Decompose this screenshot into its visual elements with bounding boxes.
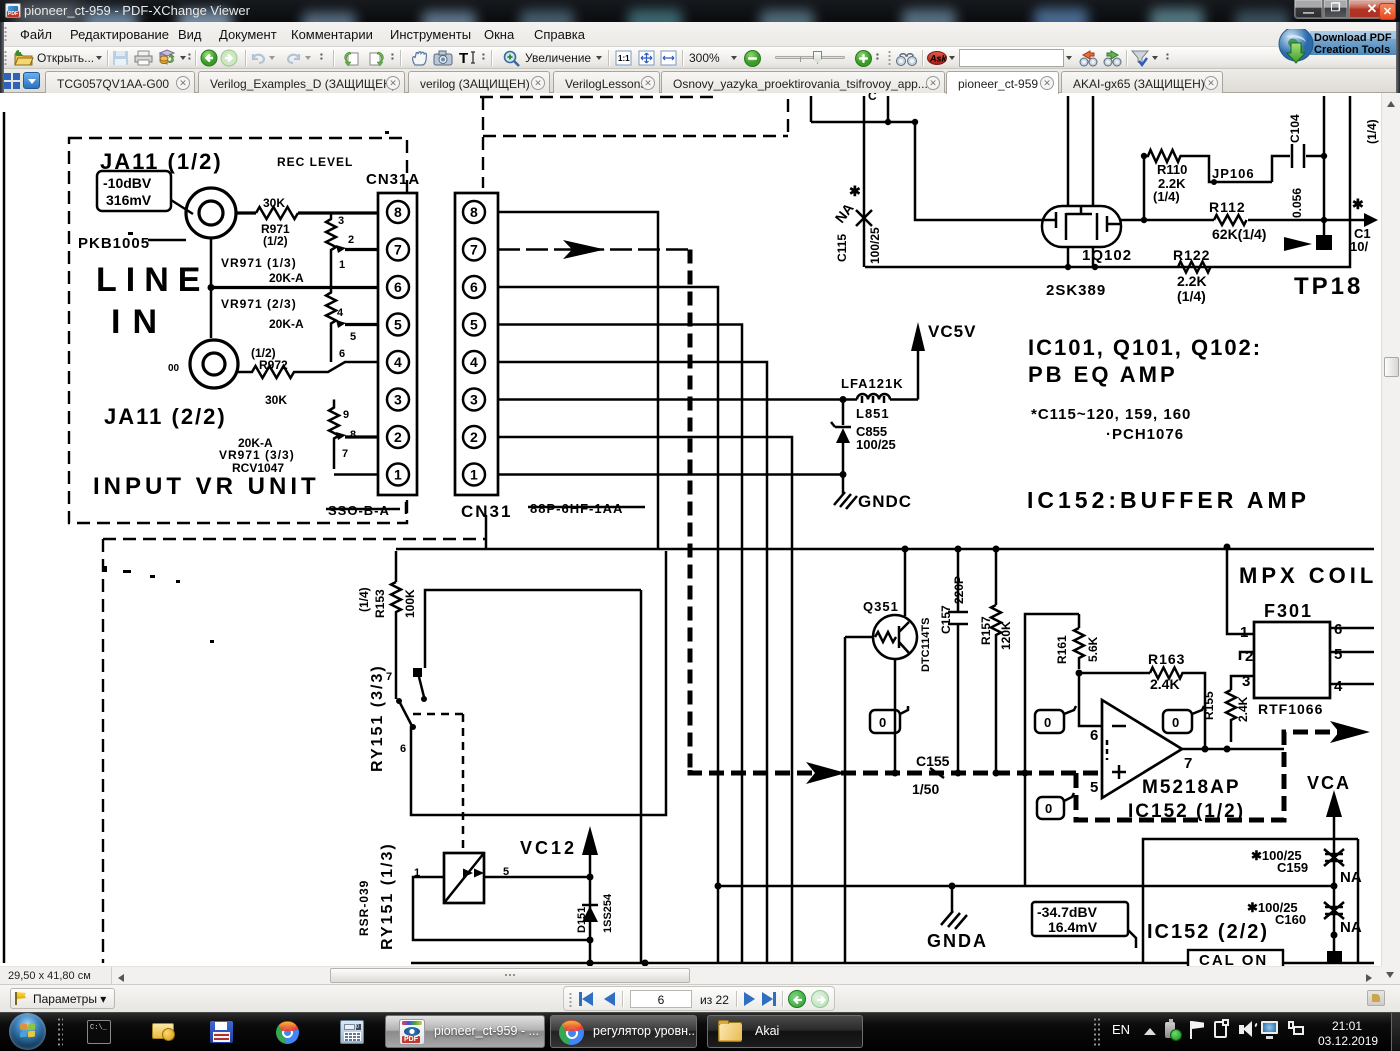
svg-text:30K: 30K <box>265 393 287 407</box>
connector CN31A <box>378 193 417 495</box>
svg-text:LFA121K: LFA121K <box>841 376 904 391</box>
capacitor C115 (NA, crossed) <box>832 183 882 264</box>
svg-text:IC101, Q101, Q102:: IC101, Q101, Q102: <box>1028 335 1262 360</box>
print <box>134 50 153 66</box>
svg-text:20K-A: 20K-A <box>269 317 304 331</box>
svg-text:7: 7 <box>394 242 402 258</box>
svg-text:88P-6HF-1AA: 88P-6HF-1AA <box>530 501 623 516</box>
tray icons <box>1165 1022 1175 1038</box>
wire to pin6 <box>211 286 378 289</box>
svg-text:00: 00 <box>168 363 180 374</box>
svg-text:1: 1 <box>339 259 345 271</box>
svg-text:0: 0 <box>1044 715 1051 730</box>
connector jack JA11 lower (RCA) <box>168 340 238 388</box>
svg-text:2SK389: 2SK389 <box>1046 282 1106 299</box>
plus circle <box>855 50 872 67</box>
value box -34.7dBV <box>1032 902 1136 948</box>
wire CN31 pin2 run <box>498 437 792 963</box>
svg-text:(1/4): (1/4) <box>1177 288 1206 304</box>
svg-text:C115: C115 <box>835 234 849 262</box>
svg-text:0: 0 <box>879 715 886 730</box>
svg-text:*C115~120, 159, 160: *C115~120, 159, 160 <box>1031 406 1191 423</box>
wire to gate line <box>915 122 1042 220</box>
wire CN31 pin1 run <box>498 473 843 476</box>
svg-text:4: 4 <box>394 354 402 370</box>
connector CN31 <box>455 193 498 495</box>
svg-text:3: 3 <box>1242 673 1250 690</box>
svg-text:8: 8 <box>350 429 356 441</box>
svg-text:PB EQ AMP: PB EQ AMP <box>1028 362 1178 387</box>
resistor R157 120K <box>979 549 1013 773</box>
svg-text:CN31A: CN31A <box>366 171 420 188</box>
svg-text:C: C <box>868 93 877 103</box>
svg-text:R112: R112 <box>1209 199 1246 215</box>
svg-text:Creation Tools: Creation Tools <box>1314 44 1390 56</box>
svg-text:-10dBV: -10dBV <box>103 175 152 191</box>
wire CN31 pin6 run <box>498 287 718 963</box>
svg-text:VR971 (1/3): VR971 (1/3) <box>221 256 297 270</box>
label 88P-6HF-1AA (struck) <box>528 501 645 516</box>
svg-text:2: 2 <box>348 234 354 246</box>
svg-text:C157: C157 <box>939 605 953 634</box>
svg-text:7: 7 <box>386 671 392 683</box>
Ask <box>927 51 947 65</box>
svg-text:R155: R155 <box>1202 691 1216 720</box>
select text <box>458 49 478 66</box>
svg-text:GNDA: GNDA <box>927 931 988 951</box>
svg-text:100/25: 100/25 <box>868 227 882 264</box>
svg-text:✱: ✱ <box>849 183 861 199</box>
hand <box>409 49 429 67</box>
node pin1/C855 <box>840 471 847 478</box>
svg-text:VR971 (2/3): VR971 (2/3) <box>221 297 297 311</box>
relay RY151 (1/3) <box>357 842 509 950</box>
op-amp IC152 (1/2) M5218AP <box>1090 700 1192 798</box>
svg-text:8: 8 <box>394 204 402 220</box>
svg-text:F301: F301 <box>1264 601 1313 621</box>
svg-text:6: 6 <box>1334 621 1342 638</box>
svg-text:D151: D151 <box>576 907 588 933</box>
svg-text:1: 1 <box>1240 624 1248 641</box>
capacitor C855 (zener) <box>831 400 896 475</box>
svg-text:3: 3 <box>338 215 344 227</box>
svg-text:9: 9 <box>343 409 349 421</box>
svg-text:C104: C104 <box>1288 114 1302 143</box>
svg-text:(1/4): (1/4) <box>1365 119 1379 144</box>
wire CN31 pin3 run to coil <box>498 398 843 401</box>
potentiometer VR971 (1/3) <box>326 213 378 288</box>
camera <box>433 50 453 66</box>
svg-text:6: 6 <box>1090 727 1098 744</box>
svg-text:L851: L851 <box>856 406 890 421</box>
svg-text:5: 5 <box>1334 646 1342 663</box>
resistor R972 30K <box>238 346 378 407</box>
IC F301 RTF1066 (MPX coil) <box>1227 549 1377 717</box>
svg-text:0: 0 <box>1172 715 1179 730</box>
resistor R153 100K <box>357 551 417 699</box>
svg-text:JP106: JP106 <box>1212 166 1255 181</box>
svg-text:✱: ✱ <box>1352 196 1364 212</box>
connector jack JA11 upper (RCA) <box>186 188 236 238</box>
diode D151 1SS254 <box>576 877 614 963</box>
svg-text:Ask: Ask <box>929 54 947 64</box>
svg-text:R157: R157 <box>979 616 993 645</box>
svg-text:CAL ON: CAL ON <box>1199 952 1268 966</box>
rotate pages <box>342 49 362 67</box>
resistor R155 2.4K <box>1202 676 1254 742</box>
svg-text:6: 6 <box>470 279 478 295</box>
svg-text:5.6K: 5.6K <box>1086 636 1100 662</box>
svg-text:Download PDF: Download PDF <box>1314 32 1392 44</box>
svg-text:IC152:BUFFER AMP: IC152:BUFFER AMP <box>1027 487 1310 513</box>
svg-text:VC5V: VC5V <box>928 322 976 341</box>
svg-text:DTC114TS: DTC114TS <box>920 618 932 672</box>
minus circle <box>744 50 761 67</box>
terminal square <box>1327 951 1342 964</box>
svg-text:1/50: 1/50 <box>912 781 939 797</box>
node junction <box>208 284 215 291</box>
svg-text:NA: NA <box>1340 919 1362 936</box>
svg-text:REC LEVEL: REC LEVEL <box>277 155 353 169</box>
svg-text:7: 7 <box>470 242 478 258</box>
label SSO-B-A (struck) <box>326 502 406 518</box>
slider <box>775 56 845 59</box>
svg-text:PKB1005: PKB1005 <box>78 235 150 252</box>
svg-text:(1/4): (1/4) <box>357 587 371 612</box>
box IC152(2/2) region <box>1143 839 1358 963</box>
svg-text:220P: 220P <box>952 576 966 604</box>
save (disabled) <box>112 50 129 66</box>
svg-text:R122: R122 <box>1173 247 1210 263</box>
task buttons <box>385 1015 545 1048</box>
svg-text:16.4mV: 16.4mV <box>1048 919 1098 935</box>
wire R110 feedback vertical <box>1143 156 1146 220</box>
wire CN31 pin5 run <box>498 325 742 964</box>
svg-text:20K-A: 20K-A <box>269 271 304 285</box>
wire bus vertical (pin7) <box>688 250 693 774</box>
svg-text:IN: IN <box>111 303 169 341</box>
svg-text:SSO-B-A: SSO-B-A <box>328 503 390 518</box>
svg-text:VCA: VCA <box>1307 773 1351 793</box>
wire jack1 down to jack2 <box>210 238 213 338</box>
wire relay pins <box>413 877 590 940</box>
wire gate2 line B <box>1121 219 1366 222</box>
svg-text:100/25: 100/25 <box>856 437 896 452</box>
wire CN31 pin7 thick bus with arrow <box>498 248 690 251</box>
zoom <box>502 49 522 67</box>
svg-text:RSR-039: RSR-039 <box>357 880 371 936</box>
svg-text:NA: NA <box>832 200 857 226</box>
svg-text:3: 3 <box>394 392 402 408</box>
svg-text:6: 6 <box>339 348 345 360</box>
open folder <box>13 49 34 67</box>
svg-text:1:1: 1:1 <box>618 54 630 63</box>
transistor Q102 (2SK389 dual FET) <box>1042 96 1132 299</box>
capacitor C157 220P <box>939 549 968 773</box>
quick launch icons <box>87 1020 111 1044</box>
svg-text:1: 1 <box>394 467 402 483</box>
svg-text:INPUT VR UNIT: INPUT VR UNIT <box>93 473 320 500</box>
wire main rail y549 <box>396 548 1374 551</box>
svg-text:2.4K: 2.4K <box>1236 696 1250 722</box>
resistor R110 2.2K <box>1144 150 1272 204</box>
node pin3/C855 <box>840 396 847 403</box>
potentiometer VR971 (2/3) <box>326 288 378 363</box>
filter funnel <box>1130 49 1150 68</box>
binoculars <box>895 51 919 66</box>
svg-text:2.2K: 2.2K <box>1177 273 1207 289</box>
svg-text:RY151 (3/3): RY151 (3/3) <box>369 664 386 772</box>
linkage dashed <box>413 713 463 716</box>
svg-text:2.4K: 2.4K <box>1150 676 1180 692</box>
svg-text:4: 4 <box>1334 678 1343 695</box>
switch RY151 (3/3) <box>369 664 427 772</box>
svg-text:316mV: 316mV <box>106 192 152 208</box>
svg-text:2: 2 <box>470 429 478 445</box>
inductor L851 LFA121K <box>841 376 918 421</box>
svg-text:6: 6 <box>394 279 402 295</box>
svg-text:TP18: TP18 <box>1294 273 1363 300</box>
svg-text:C155: C155 <box>916 753 950 769</box>
svg-text:0.056: 0.056 <box>1290 188 1304 218</box>
svg-text:62K(1/4): 62K(1/4) <box>1212 226 1266 242</box>
svg-text:4: 4 <box>470 354 478 370</box>
svg-text:M5218AP: M5218AP <box>1142 777 1241 798</box>
section boundary dash-dot left <box>103 515 486 963</box>
resistor R971 30K <box>256 207 298 219</box>
svg-text:8: 8 <box>470 204 478 220</box>
svg-text:RTF1066: RTF1066 <box>1258 701 1323 717</box>
svg-text:VR971 (3/3): VR971 (3/3) <box>219 448 295 462</box>
svg-text:7: 7 <box>1184 755 1192 772</box>
svg-text:VC12: VC12 <box>520 838 577 858</box>
resistor R122 2.2K <box>1173 247 1211 304</box>
svg-text:4: 4 <box>337 307 344 319</box>
svg-text:0: 0 <box>1045 801 1052 816</box>
svg-text:100K: 100K <box>403 589 417 618</box>
testpoint 0 boxes <box>870 706 908 733</box>
resistor R161 5.6K <box>1055 614 1100 669</box>
svg-text:1: 1 <box>470 467 478 483</box>
resistor R163 2.4K feedback <box>1079 651 1205 749</box>
svg-text:Q351: Q351 <box>863 599 899 614</box>
clock <box>1332 1019 1362 1033</box>
wire R161 feed <box>1025 614 1079 886</box>
ink specks <box>104 131 389 643</box>
svg-text:JA11 (2/2): JA11 (2/2) <box>104 404 227 429</box>
svg-text:7: 7 <box>342 448 348 460</box>
find prev/next binoculars <box>1078 49 1099 67</box>
wire CN31 leader down <box>485 515 488 549</box>
svg-text:MPX COIL: MPX COIL <box>1239 563 1377 588</box>
svg-text:T: T <box>459 50 468 66</box>
svg-text:2: 2 <box>394 429 402 445</box>
wire CN31 pin8 run <box>498 212 658 549</box>
export package <box>157 49 177 67</box>
svg-text:(1/2): (1/2) <box>263 234 288 248</box>
potentiometer VR971 (3/3) <box>329 400 378 475</box>
wire CN31 pin4 run <box>498 362 767 963</box>
svg-text:R163: R163 <box>1148 651 1185 667</box>
download badge <box>1276 29 1400 69</box>
power VCA <box>1307 773 1351 963</box>
ground GNDC <box>834 475 912 512</box>
capacitor C160 (NA) <box>1247 900 1362 936</box>
page left edge <box>3 112 6 963</box>
svg-text:-34.7dBV: -34.7dBV <box>1037 904 1098 920</box>
svg-text:30K: 30K <box>263 196 285 210</box>
svg-text:GNDC: GNDC <box>858 492 912 511</box>
svg-text:C160: C160 <box>1275 912 1306 927</box>
svg-text:R153: R153 <box>373 589 387 618</box>
svg-text:R110: R110 <box>1157 162 1187 177</box>
svg-text:NA: NA <box>1340 869 1362 886</box>
capacitor C104 0.056 <box>1272 114 1327 218</box>
svg-text:IC152 (2/2): IC152 (2/2) <box>1147 921 1269 943</box>
wire switch loop <box>411 551 666 815</box>
resistor R112 62K(1/4) <box>1209 199 1266 242</box>
svg-text:10/: 10/ <box>1350 239 1368 254</box>
wire right edge vertical <box>865 96 1350 267</box>
wire TP18 stub <box>1284 96 1363 300</box>
capacitor C155 1/50 <box>912 753 950 797</box>
undo/redo <box>250 50 267 65</box>
svg-text:(1/4): (1/4) <box>1153 189 1180 204</box>
svg-text:C159: C159 <box>1277 860 1308 875</box>
transistor Q351 DTC114TS <box>845 549 932 963</box>
svg-text:5: 5 <box>394 317 402 333</box>
tray <box>0 1012 1400 1014</box>
capacitor stub box top <box>811 89 918 267</box>
box CAL ON <box>1188 950 1283 969</box>
svg-text:·PCH1076: ·PCH1076 <box>1106 426 1184 443</box>
power VC12 <box>520 826 598 877</box>
svg-text:RY151 (1/3): RY151 (1/3) <box>379 842 396 950</box>
bus corner to op-amp <box>690 770 1102 773</box>
svg-text:5: 5 <box>470 317 478 333</box>
svg-text:LINE: LINE <box>96 261 209 299</box>
svg-text:1SS254: 1SS254 <box>602 893 614 933</box>
svg-text:R972: R972 <box>259 358 288 372</box>
search box <box>959 49 1064 67</box>
value box -10dBV 316mV <box>97 171 193 214</box>
back/forward <box>200 49 218 67</box>
svg-text:3: 3 <box>470 392 478 408</box>
svg-text:120K: 120K <box>999 621 1013 650</box>
box PB block <box>425 590 641 963</box>
ground GNDA <box>927 886 988 951</box>
wire output <box>1182 748 1284 751</box>
wire bottom rail <box>411 962 1374 965</box>
svg-text:2: 2 <box>1245 648 1253 665</box>
wire inverting input <box>1079 673 1102 726</box>
wire jack1 to pin8 <box>236 211 256 214</box>
svg-text:1Q102: 1Q102 <box>1082 247 1132 264</box>
svg-text:6: 6 <box>400 743 406 755</box>
svg-text:R161: R161 <box>1055 635 1069 664</box>
wire rail y886 <box>718 885 1336 888</box>
capacitor C159 (NA) <box>1251 848 1362 886</box>
1:1 / fit icons <box>615 50 633 66</box>
section boundary dash-dot top <box>480 97 788 188</box>
bus output path thick <box>1076 732 1340 820</box>
svg-text:5: 5 <box>350 331 356 343</box>
svg-text:5: 5 <box>1090 779 1098 796</box>
INPUT VR UNIT dashed box <box>69 138 407 523</box>
power VC5V <box>911 322 976 400</box>
